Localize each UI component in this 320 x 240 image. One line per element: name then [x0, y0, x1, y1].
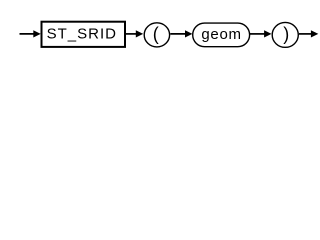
- arrowhead A2: [136, 30, 143, 37]
- wire W1 (entry rail): [20, 33, 37, 35]
- svg-text:(: (: [153, 24, 159, 44]
- punctuation circle (: [144, 23, 169, 47]
- wire W2: [126, 33, 138, 35]
- background: [0, 0, 320, 58]
- svg-text:geom: geom: [201, 26, 241, 43]
- terminal box ST_SRID: [42, 22, 126, 47]
- variable pill geom: [193, 23, 250, 47]
- arrowhead A5: [311, 30, 318, 37]
- wire W3: [170, 33, 187, 35]
- arrowhead A3: [185, 30, 192, 37]
- wire W5 (exit rail): [299, 33, 313, 35]
- arrowhead A1: [33, 30, 40, 37]
- punctuation circle ): [272, 22, 298, 47]
- arrowhead A4: [264, 30, 271, 37]
- svg-text:): ): [283, 24, 289, 44]
- wire W4: [250, 33, 266, 35]
- svg-text:ST_SRID: ST_SRID: [47, 25, 117, 42]
